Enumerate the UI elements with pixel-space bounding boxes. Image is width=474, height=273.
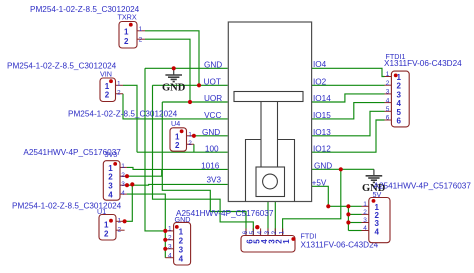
svg-text:UOR: UOR	[204, 94, 222, 103]
svg-text:2: 2	[118, 226, 122, 233]
svg-text:2: 2	[386, 80, 390, 87]
wire net UOR down to FTDI pin5	[162, 102, 246, 236]
wire net UOT down to FTDI pin6	[153, 85, 254, 235]
svg-text:GND: GND	[162, 83, 186, 94]
svg-text:IO2: IO2	[313, 78, 327, 87]
svg-text:VIN: VIN	[100, 69, 112, 78]
junction dot UOR	[188, 100, 192, 104]
svg-text:FTDI: FTDI	[301, 231, 317, 240]
module inner walls	[246, 140, 262, 202]
connector VIN (PM254-1-02-Z-8.5)	[7, 62, 123, 102]
svg-text:2: 2	[124, 37, 129, 46]
wire 5V header tie vertical	[347, 206, 349, 230]
junction dot 3V3 header pin3	[125, 183, 129, 187]
svg-text:5: 5	[386, 106, 390, 113]
junction dot FTDI pin5/pin4	[255, 225, 259, 229]
svg-text:1: 1	[386, 71, 390, 78]
wire tie to 5V header pin2	[348, 213, 361, 215]
svg-text:1: 1	[168, 226, 172, 233]
wire net IO15 to FTDI1 pin4	[312, 103, 385, 119]
junction dot UOT	[197, 83, 201, 87]
svg-text:IO4: IO4	[313, 60, 327, 69]
svg-text:2: 2	[397, 82, 402, 91]
svg-text:3: 3	[363, 217, 367, 224]
svg-text:GND: GND	[204, 60, 222, 69]
svg-text:5: 5	[397, 108, 402, 117]
wire tie to 5V header pin4	[348, 230, 361, 232]
wire net GND right to ground symbol	[312, 168, 374, 170]
wire net IO14 to FTDI1 pin3	[312, 94, 385, 102]
wire TXRX pin1 to net UOT	[145, 31, 199, 86]
svg-text:100: 100	[205, 144, 219, 153]
svg-text:3: 3	[108, 182, 113, 191]
svg-text:3V3: 3V3	[207, 175, 222, 184]
wire net GND left horizontal into module	[145, 67, 228, 69]
svg-text:3: 3	[179, 246, 184, 255]
junction dot +5V corner	[326, 204, 330, 208]
svg-text:2: 2	[105, 90, 110, 99]
svg-text:2: 2	[121, 172, 125, 179]
svg-text:6: 6	[386, 115, 390, 122]
svg-text:3: 3	[168, 243, 172, 250]
ground symbol GND right	[362, 169, 386, 194]
svg-text:2: 2	[179, 237, 184, 246]
wire 3V3 header pin4 down to GND header pins	[127, 194, 165, 258]
junction dot GND header pin3	[163, 247, 167, 251]
junction dot 5V tie top	[346, 204, 350, 208]
svg-text:6: 6	[397, 117, 402, 126]
junction dot 3V3 header pin2	[125, 174, 129, 178]
wire module bottom pin to FTDI pin3	[267, 202, 269, 236]
wire TXRX pin2 to net UOR	[145, 39, 190, 102]
module U5 outline	[228, 22, 311, 202]
svg-text:2: 2	[271, 231, 278, 235]
svg-text:3V3: 3V3	[105, 150, 118, 159]
wire net GND down to FTDI pin1	[283, 169, 341, 235]
wire net UOR horizontal into module	[162, 101, 227, 103]
junction dot U1 to 3V3 net	[130, 182, 134, 186]
svg-text:TXRX: TXRX	[118, 13, 137, 22]
connector U4 (PM254-1-02-Z-8.5)	[68, 110, 194, 152]
module socket square	[256, 167, 285, 197]
svg-text:1: 1	[121, 163, 125, 170]
wire net +5V to 5V header pin1	[312, 186, 362, 206]
junction dot 5V tie pin3	[346, 220, 350, 224]
svg-text:IO12: IO12	[313, 144, 331, 153]
junction dot GND header pin2	[163, 238, 167, 242]
junction dot 5V tie pin2	[346, 212, 350, 216]
connector 5V (A2541HWV-4P)	[362, 181, 472, 242]
svg-text:4: 4	[256, 231, 263, 235]
junction dot GND top	[172, 66, 176, 70]
svg-text:4: 4	[168, 252, 172, 259]
svg-text:3: 3	[264, 231, 271, 235]
wire module bottom pin to FTDI pin2	[274, 202, 276, 236]
svg-text:3: 3	[397, 90, 402, 99]
svg-text:GND: GND	[314, 161, 332, 170]
svg-text:1: 1	[278, 231, 285, 235]
wire net IO2 to FTDI1 pin2	[312, 84, 385, 86]
svg-text:2: 2	[108, 173, 113, 182]
connector TXRX (PM254-1-02-Z-8.5)	[30, 5, 145, 48]
wire net IO13 to FTDI1 pin5	[312, 111, 385, 136]
svg-text:X1311FV-06-C43D24: X1311FV-06-C43D24	[301, 240, 379, 249]
svg-text:A2541HWV-4P_C5176037: A2541HWV-4P_C5176037	[176, 209, 274, 218]
svg-text:6: 6	[242, 231, 249, 235]
svg-text:X1311FV-06-C43D24: X1311FV-06-C43D24	[384, 59, 462, 68]
wire U4 pin2 drop to net 100	[193, 144, 195, 152]
junction dot GND right	[339, 167, 343, 171]
svg-text:IO14: IO14	[313, 94, 331, 103]
wire net GND vertical down to GND header pin1	[145, 68, 165, 231]
wire net 3V3 horizontal into module	[127, 183, 228, 186]
svg-text:2: 2	[188, 140, 192, 147]
svg-text:1: 1	[188, 132, 192, 139]
connector U1 (PM254-1-02-Z-8.5)	[12, 202, 125, 241]
svg-text:1: 1	[104, 220, 109, 229]
wire net GND2 from U4 pin1 into module	[194, 135, 228, 137]
svg-text:IO13: IO13	[313, 128, 331, 137]
wire net UOT horizontal into module	[153, 84, 228, 86]
wire net IO4 to FTDI1 pin1	[312, 68, 385, 76]
junction dot U4 pin1 on GND2	[192, 134, 196, 138]
wire tie to 5V header pin3	[348, 222, 361, 224]
wire VIN pin1 to net 100	[123, 85, 137, 152]
svg-text:+5V: +5V	[312, 178, 327, 187]
svg-text:1: 1	[124, 27, 129, 36]
svg-text:1: 1	[118, 217, 122, 224]
svg-text:4: 4	[386, 97, 390, 104]
svg-text:A2541HWV-4P_C5176037: A2541HWV-4P_C5176037	[374, 181, 472, 190]
module crossbar	[234, 92, 303, 102]
svg-text:PM254-1-02-Z-8.5_C3012024: PM254-1-02-Z-8.5_C3012024	[68, 110, 178, 119]
wire net IO12 to FTDI1 pin6	[312, 120, 385, 152]
svg-text:4: 4	[121, 190, 125, 197]
svg-text:2: 2	[168, 234, 172, 241]
wire net 1016 horizontal into module	[127, 167, 228, 169]
svg-text:1016: 1016	[201, 162, 220, 171]
wire 3V3 header pin2 jog up to net 1016	[127, 169, 162, 176]
wire net VCC from VIN pin2	[123, 94, 228, 119]
svg-text:U4: U4	[171, 119, 180, 128]
module stem	[261, 102, 278, 168]
svg-text:UOT: UOT	[204, 77, 221, 86]
svg-text:1: 1	[108, 164, 113, 173]
svg-text:1: 1	[139, 26, 143, 33]
svg-text:1: 1	[179, 228, 184, 237]
module socket circle	[263, 174, 278, 189]
wire net 100 horizontal into module	[137, 151, 228, 153]
junction dot U1 pin1	[123, 219, 127, 223]
svg-text:4: 4	[179, 255, 184, 264]
svg-text:5: 5	[249, 231, 256, 235]
wire U1 pin1 up to net 3V3	[125, 184, 133, 221]
connector GND (A2541HWV-4P)	[165, 209, 274, 265]
svg-text:2: 2	[117, 89, 121, 96]
svg-text:IO15: IO15	[313, 111, 331, 120]
svg-text:2: 2	[175, 141, 180, 150]
svg-text:4: 4	[363, 225, 367, 232]
svg-text:1: 1	[363, 201, 367, 208]
svg-text:3: 3	[121, 181, 125, 188]
svg-text:4: 4	[397, 99, 402, 108]
connector 3V3 (A2541HWV-4P)	[23, 148, 127, 200]
ground symbol GND top	[162, 69, 186, 94]
svg-text:2: 2	[104, 229, 109, 238]
junction dot GND header pin1	[163, 229, 167, 233]
svg-text:4: 4	[375, 227, 380, 236]
svg-text:1: 1	[282, 239, 291, 244]
svg-text:3: 3	[386, 89, 390, 96]
connector FTDI1 (X1311FV-06-C43D24)	[384, 52, 462, 127]
svg-text:GND: GND	[202, 128, 220, 137]
svg-text:2: 2	[363, 209, 367, 216]
svg-text:4: 4	[108, 191, 113, 200]
svg-text:1: 1	[117, 81, 121, 88]
connector FTDI bottom (X1311FV-06-C43D24)	[241, 228, 379, 252]
svg-text:VCC: VCC	[204, 111, 221, 120]
svg-text:2: 2	[139, 37, 143, 44]
